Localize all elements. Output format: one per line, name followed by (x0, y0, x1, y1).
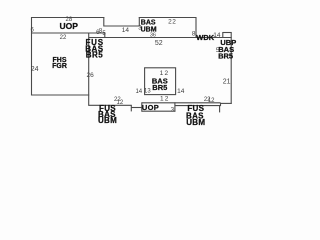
wall UOP porch bottom / FHS top (31, 32, 105, 34)
wall UOP porch right edge (103, 17, 105, 27)
wall UOP porch top (31, 17, 104, 19)
wall jog bottom (131, 107, 142, 109)
svg-text:21: 21 (223, 78, 231, 85)
wall UOP box bottom (142, 110, 176, 112)
wall connector top (14) (104, 25, 140, 27)
svg-text:13: 13 (144, 89, 151, 95)
wall step connector right (220, 103, 222, 106)
svg-text:24: 24 (31, 66, 39, 73)
wall FHS bottom (32, 94, 90, 96)
wall bay box left (222, 32, 224, 38)
svg-text:14: 14 (177, 88, 185, 95)
wall jog down + 1ft tick (130, 105, 132, 111)
wall bottom left segment (89, 104, 132, 106)
wall bay box top (223, 32, 232, 34)
svg-text:5: 5 (216, 47, 220, 54)
svg-text:22: 22 (60, 35, 67, 41)
wall main bottom right end (221, 102, 232, 104)
svg-text:BR5: BR5 (152, 83, 167, 92)
svg-text:12: 12 (208, 98, 215, 104)
svg-text:14: 14 (135, 89, 142, 95)
svg-text:5: 5 (102, 31, 106, 37)
svg-text:3: 3 (171, 107, 175, 113)
svg-text:52: 52 (155, 40, 163, 47)
svg-text:26: 26 (86, 72, 94, 79)
wall right edge (21) (230, 33, 232, 104)
wall mid-block left edge (26) (88, 33, 90, 106)
svg-text:UBM: UBM (186, 118, 205, 127)
svg-text:UBM: UBM (98, 116, 117, 125)
wall main bottom mid-right (142, 102, 221, 104)
svg-text:BR5: BR5 (86, 51, 104, 60)
svg-text:FGR: FGR (52, 63, 67, 70)
svg-text:WDK: WDK (196, 33, 214, 42)
svg-text:36: 36 (150, 32, 156, 38)
wall UOP box left (141, 102, 143, 111)
tick 1ft right (219, 106, 221, 113)
svg-text:22: 22 (168, 18, 176, 25)
wall BAS/UBM box right edge (8) (195, 17, 197, 38)
wall lower step line (1) (175, 105, 221, 107)
wall UOP box right (174, 102, 176, 111)
svg-text:28: 28 (66, 17, 73, 23)
svg-text:12: 12 (117, 100, 124, 106)
svg-text:UOP: UOP (142, 103, 159, 112)
svg-text:12: 12 (160, 95, 170, 102)
interior box BAS/BR5 (145, 68, 176, 95)
svg-text:BR5: BR5 (218, 51, 233, 60)
wall small step at 5 (104, 33, 106, 39)
wall BAS/UBM box left edge (3) (138, 17, 140, 27)
svg-text:14: 14 (122, 27, 130, 34)
wall main block top (52 / WDK) (89, 37, 232, 39)
wall BAS/UBM box top (139, 17, 197, 19)
wall left edge (UOP + FHS) (31, 17, 33, 96)
